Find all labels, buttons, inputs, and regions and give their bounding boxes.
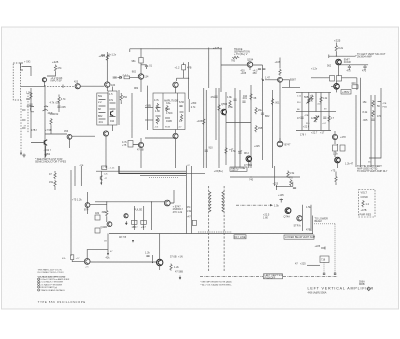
wire term vertical [274,166,276,186]
svg-text:1.2k: 1.2k [145,252,150,255]
dashdot pickoff line [236,204,270,206]
svg-text:1.80: 1.80 [263,217,268,220]
resistor R653 boxed [132,220,138,224]
resistor R433 [106,54,108,61]
svg-text:+4.7: +4.7 [141,226,147,229]
resistor R608 [372,100,374,107]
svg-text:Q534: Q534 [247,58,254,61]
wire right rail 2 [360,78,362,167]
dotted link lower [314,223,335,225]
svg-text:0.05mV VERT/cm AMPLIFIER: 0.05mV VERT/cm AMPLIFIER [40,278,69,281]
svg-text:30B: 30B [102,211,107,214]
arrow dashed bottom [20,150,22,156]
svg-text:VOLT: VOLT [361,192,368,195]
svg-text:1.5k: 1.5k [187,210,192,213]
svg-text:1.47: 1.47 [265,77,270,80]
junction dot j [312,233,313,234]
ladder vertical 1 [301,92,303,130]
resistor R473 boxed [182,65,186,70]
wire double line lower [140,174,186,176]
svg-text:1.80: 1.80 [155,110,160,113]
delay line dashed side A [208,186,210,272]
svg-text:178 f: 178 f [300,134,306,137]
svg-text:+225: +225 [254,145,260,148]
svg-text:1.5k: 1.5k [274,205,279,208]
capacitor C812 rail [233,99,236,100]
wire vertical pair [209,48,221,93]
resistor R609 [372,110,374,117]
resistor R672 [290,179,292,186]
svg-text:4.7: 4.7 [331,117,335,120]
svg-text:+225: +225 [52,60,59,64]
svg-text:B62: B62 [98,115,103,118]
arrow x133 [132,240,134,243]
svg-text:** ALL VOLT (A&B) GIVEN WELL: ** ALL VOLT (A&B) GIVEN WELL [200,284,233,287]
wire mid rail b [143,206,145,230]
capacitor C410 [62,85,64,89]
resistor R619 [54,180,56,187]
svg-text:B747: B747 [285,144,291,147]
svg-text:+1.2: +1.2 [175,67,181,70]
svg-text:2.7k: 2.7k [191,106,196,109]
wire +225 stub [321,247,325,250]
wire Q623 leads [88,192,107,214]
resistor R573 [335,45,337,52]
transistor Q453 [67,134,72,139]
svg-text:+1.2 f: +1.2 f [122,75,128,77]
svg-text:4.7k: 4.7k [61,98,66,101]
svg-text:FRONT PART (p): FRONT PART (p) [40,286,57,289]
svg-text:2.2: 2.2 [98,101,102,104]
resistor Rcond [362,200,364,207]
wire +225 bus [109,49,222,57]
wire term rails [301,205,303,231]
svg-text:57.6B: 57.6B [170,256,177,259]
label box trigger pickoff [264,274,283,279]
svg-text:1.2k: 1.2k [174,266,179,269]
resistor R578 boxed [330,76,335,82]
resistor R559 [255,125,257,132]
label box delay line input [230,167,247,171]
svg-text:1.50C: 1.50C [166,112,173,115]
svg-text:740: 740 [249,179,254,182]
svg-text:SEMICONDUCTOR TYPES: SEMICONDUCTOR TYPES [35,161,66,164]
wire q693 collector up [87,250,108,259]
arrow x108 [107,253,109,256]
wire rail 2 [205,90,207,168]
transistor Q677 [297,216,302,221]
resistor R534 [232,56,239,58]
diode D463 [120,76,122,78]
wire rail 4 [218,88,220,168]
wire output run [90,261,156,263]
capacitor C554 [242,101,245,102]
note item 1 [38,278,40,280]
svg-text:+5(B): +5(B) [145,105,151,108]
wire Q473 leads [175,88,177,94]
svg-text:.001: .001 [98,121,103,124]
transistor Qfeed [100,176,102,180]
svg-text:TYPE 556 OSCILLOSCOPE: TYPE 556 OSCILLOSCOPE [38,300,86,304]
wire x280 upper [279,58,281,69]
resistor R663 [287,171,289,178]
svg-text:* SEE IMPORTANT NOTE (A&B): * SEE IMPORTANT NOTE (A&B) [200,281,232,284]
resistor R598 boxed [333,145,338,151]
wire delay line to bus [198,231,232,233]
wire Q513 emitter [175,130,177,169]
resistor R595 [328,115,330,122]
junction dot a [140,48,141,49]
junction dot f [276,186,277,187]
transistor Q423 [75,84,80,89]
amplifier box B (right half) [108,91,117,125]
interstage box B2 [153,93,185,130]
svg-text:INPUT: INPUT [231,169,239,172]
termination small network [280,199,284,203]
wire feed rail upper [96,170,186,172]
tick far right [378,101,382,103]
arrowhead pickoff [270,204,273,206]
svg-text:350: 350 [123,96,128,99]
wire +1.2 row [311,78,357,90]
transistor Q534 [247,62,252,67]
long vertical rails mid [203,88,205,168]
capacitor C810 rail [214,96,217,97]
resistor R683 boxed [71,255,74,260]
resistor R626 boxed [95,215,100,220]
svg-text:+1.2v: +1.2v [110,54,117,57]
wire rail 6 [234,88,236,168]
svg-text:+350V: +350V [342,91,350,94]
svg-text:+105: +105 [197,120,203,123]
resistor R815 rail [271,98,273,105]
resistor R811 rail [218,104,220,111]
transistor Q463 [138,74,143,79]
svg-text:47.56B: 47.56B [244,164,252,167]
svg-text:MRB: MRB [359,283,365,286]
wire q453 down [69,139,71,148]
svg-text:VOLTAGE AND WFM COND: VOLTAGE AND WFM COND [38,275,66,278]
resistor R816 rail [203,118,205,125]
resistor R449 [50,118,52,125]
transistor Q593 [332,134,337,139]
svg-text:1.5k: 1.5k [26,92,31,95]
wire base row [118,76,139,78]
svg-text:470: 470 [362,70,367,73]
transistor Q443 [43,106,49,111]
wire left column [30,88,32,116]
wire q443b stub [31,136,95,154]
wire rail 11 [279,82,281,141]
svg-text:910: 910 [26,98,31,101]
transistor V564 tube [277,141,283,147]
capacitor C575 [348,67,351,68]
wire input line [25,85,45,87]
wire right driver rails [186,166,188,234]
svg-text:910B: 910B [166,120,172,123]
resistor R713 boxed [320,256,329,263]
wire input stub [26,67,31,77]
svg-text:PWR RES: PWR RES [360,214,372,217]
wire feed continuation [186,172,205,174]
capacitor C593 [300,117,303,118]
resistor ladder extra [311,95,313,102]
resistor R502 inside B2 [156,103,158,110]
wire long low bus [109,233,312,235]
svg-text:1.5: 1.5 [109,93,113,96]
svg-text:47B: 47B [187,67,192,70]
label box lower beam [284,235,314,239]
svg-text:Q553: Q553 [221,103,228,106]
wire feed drop left [100,171,102,182]
svg-text:LEFT VERTICAL AMPLIFIER: LEFT VERTICAL AMPLIFIER [308,286,374,290]
wire Q603 emitter [337,163,339,168]
svg-text:1.5k: 1.5k [306,206,311,209]
transistor Q603 [335,157,341,163]
svg-text:1N4152: 1N4152 [50,113,59,116]
transistor Q496 [138,142,143,147]
delay line dashed side B [223,186,225,272]
wire Q544 row [265,80,290,88]
svg-text:+350: +350 [191,102,197,105]
svg-text:PZA: PZA [383,106,388,109]
wire tick [328,55,330,59]
junction dot i [250,176,251,177]
wire B2 left lead [145,107,153,109]
svg-text:1.2: 1.2 [366,203,370,206]
wire emitter bus [44,85,46,158]
svg-text:450: 450 [253,72,258,75]
wire r667 [335,172,337,186]
wire right rail 4 [374,95,376,167]
switch bracket left [31,107,35,112]
resistor R485 [120,94,122,101]
capacitor C817 rail [238,152,241,153]
svg-text:+47B: +47B [361,209,367,212]
wire r683 to q693 [72,260,84,262]
svg-text:910: 910 [243,95,248,98]
wire junction to sig out [329,52,357,56]
svg-text:56B: 56B [304,96,309,99]
resistor R447 [58,96,60,103]
svg-text:BEAM: BEAM [315,220,322,223]
capacitor C610 [371,119,374,120]
ground [22,154,26,158]
svg-text:8-50: 8-50 [179,101,185,104]
wire B2 left lower lead [145,119,153,121]
capacitor C697 [146,256,149,257]
svg-text:2 cm RACK / TRIGGER: 2 cm RACK / TRIGGER [40,281,63,284]
svg-text:+75 1.2k: +75 1.2k [72,199,82,202]
resistor R462 boxed [124,76,130,79]
svg-text:47B: 47B [80,165,84,167]
wire box B drop [112,87,114,132]
wire right driver rail b [191,166,193,234]
svg-text:.005: .005 [363,119,368,122]
note item 2 [38,281,40,283]
resistor R594 [315,115,317,122]
junction dot h [152,262,153,263]
svg-text:982: 982 [134,87,139,90]
small box note [352,85,358,89]
svg-text:+22.7: +22.7 [311,132,318,135]
wire dotted drop a [323,263,325,274]
note item 3 [38,283,40,285]
resistor B2 extra [156,117,158,124]
svg-text:760: 760 [231,60,236,63]
svg-text:PICKOFF: PICKOFF [265,276,276,279]
svg-text:+15(B+): +15(B+) [214,170,223,173]
resistor R706 [170,264,172,271]
svg-text:98.2: 98.2 [244,152,249,155]
amplifier box A (left half) [97,93,108,125]
svg-text:47B: 47B [306,229,311,232]
attenuator dashed box upper [13,63,20,100]
svg-text:+225: +225 [334,39,341,43]
wire long vertical x132 [131,93,133,138]
resistor R554 [229,100,231,107]
wire Q583 leads [331,81,337,92]
transistor arrow symbol [262,79,264,81]
svg-text:4.7k .005: 4.7k .005 [50,102,61,105]
transistor Q483 inside box [111,111,114,116]
svg-text:8.2k: 8.2k [338,47,343,50]
note item 5 [38,289,40,291]
svg-text:470 1.2k: 470 1.2k [173,211,183,214]
wire feed from above [152,255,154,263]
svg-text:INPUT EF: INPUT EF [51,80,63,83]
capacitor C447 [57,106,60,107]
capacitor C814 rail [261,113,264,114]
capacitor C463 [145,66,148,67]
wire r618 chain [54,171,56,190]
delay line coil B [222,192,224,212]
wire Q433 emitter into box [106,87,108,91]
svg-text:+1N: +1N [178,256,183,259]
wire left rail b [80,166,82,186]
svg-text:+105: +105 [278,194,284,197]
wire r636 [106,202,108,222]
svg-text:Q44B: Q44B [101,226,108,229]
capacitor C506 inside B2 [179,106,182,107]
box B1b interior rows [110,103,116,117]
svg-text:+75: +75 [122,144,127,147]
transistor Q647 [107,222,112,227]
svg-text:+22 f: +22 f [303,126,309,129]
wire rail 10 [272,90,274,168]
svg-text:910: 910 [209,147,214,150]
svg-text:12B: 12B [311,117,316,120]
svg-text:FLWR: FLWR [344,61,351,64]
svg-text:+47: +47 [238,150,243,153]
off-page arrow Q643 [125,221,127,225]
resistor R636 [106,210,108,217]
svg-text:1.5k: 1.5k [228,106,233,109]
resistor R496 boxed [128,141,133,148]
svg-text:434: 434 [111,84,116,87]
svg-text:CAL: CAL [166,102,171,105]
wire mid rail c [151,202,153,230]
svg-text:470: 470 [347,70,352,73]
wire driver baseline [95,201,164,203]
junction dot d [106,201,107,202]
label +350 box [341,90,351,95]
wire Q493 emitter down [105,136,107,168]
transistor Q433 [105,82,110,87]
resistor R818 rail [225,147,227,154]
wire dotted segment [149,176,179,178]
box B1 interior rows [99,100,106,120]
wire rail 9 [262,65,264,160]
wire thick feed elbow [119,166,186,173]
resistor R654 boxed [141,220,147,224]
capacitor C421 [29,104,32,105]
svg-text:910B: 910B [165,127,171,129]
wire x108 drop [107,234,109,254]
svg-text:47.6B: 47.6B [137,149,144,152]
wire +350 right of box [118,90,120,125]
transistor Q623 [85,203,90,208]
wire mid rails [134,206,136,230]
svg-text:134: 134 [144,76,149,79]
svg-text:1.2k: 1.2k [323,97,328,100]
wire long left rail [70,170,72,256]
wire R473 [184,62,189,99]
svg-text:1.8k: 1.8k [227,96,232,99]
svg-text:8.2k: 8.2k [363,111,368,114]
svg-text:DLY LINE: DLY LINE [235,236,246,239]
wire right of B2 [188,99,190,112]
svg-text:+225: +225 [315,245,321,248]
transistor Q563 [246,156,252,162]
transistor Q544 [278,77,283,82]
wire left rails [74,166,76,186]
wire Q463 emitter [140,79,142,92]
label box delay line driver [234,235,246,239]
wire q703 collector up [159,234,161,260]
attenuator contacts [21,86,26,128]
svg-text:17B f: 17B f [31,129,37,132]
svg-text:+17: +17 [320,132,325,135]
svg-text:2N3904 AMP: 2N3904 AMP [357,56,372,59]
resistor R504 inside B2 [166,105,168,112]
wire rail 7 [239,90,241,168]
capacitor C576 [363,67,366,68]
svg-text:PULSE: PULSE [134,209,143,212]
wire right rail 1 [355,95,357,167]
resistor R421 [30,92,32,99]
svg-text:.005: .005 [61,106,66,109]
svg-text:IN CONNECTION 1-7703 F: IN CONNECTION 1-7703 F [38,272,65,274]
ladder vertical 2 [308,92,310,130]
svg-text:Q74A: Q74A [284,216,291,219]
svg-text:910: 910 [110,120,115,123]
svg-text:TRACE IN AND DETAILS: TRACE IN AND DETAILS [40,289,65,292]
svg-text:4/66 (A&R) 556A: 4/66 (A&R) 556A [308,291,327,294]
svg-text:1.5k: 1.5k [290,172,295,175]
transistor Q473 [173,82,178,87]
wire Q703 down [159,266,161,270]
dashed vertical x28 [27,93,29,133]
capacitor C537 [262,69,265,70]
wire B2 bottom bus [145,137,175,139]
transistor Q413 [42,78,46,82]
svg-text:16B: 16B [258,127,263,130]
junction dot c [188,78,189,79]
resistor R813 rail [250,93,252,100]
svg-text:COND: COND [361,196,369,199]
wire Q534 row [221,65,263,70]
